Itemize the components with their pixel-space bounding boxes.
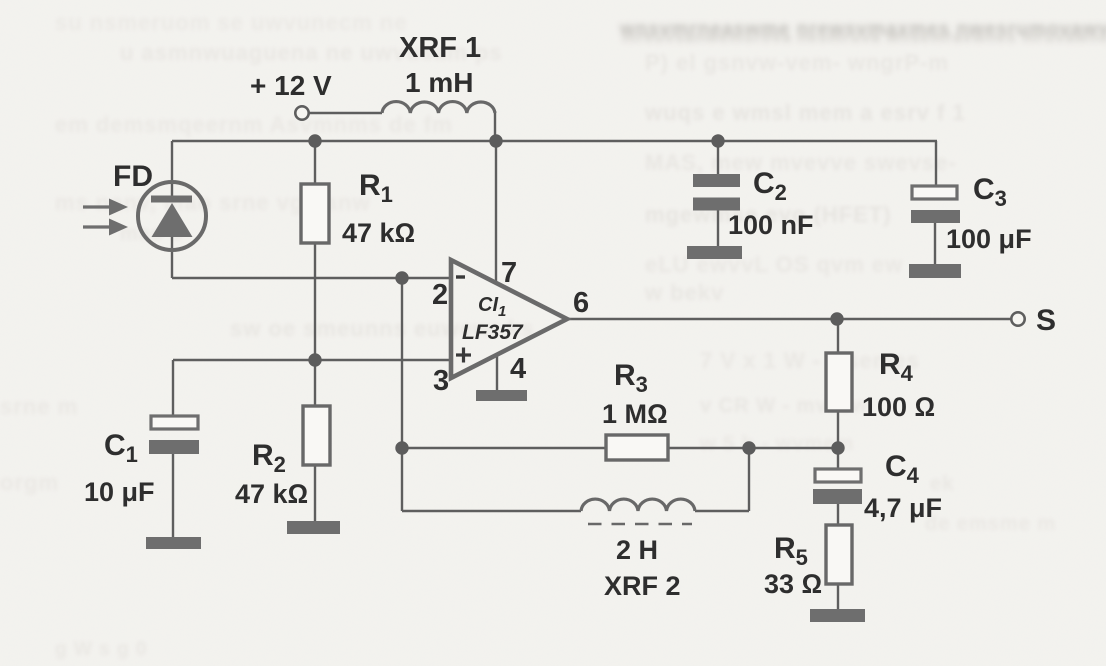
svg-text:XRF 1: XRF 1	[399, 32, 481, 64]
wire R5 to ground	[837, 584, 839, 610]
wire R1 bottom to R2 top	[314, 243, 316, 406]
terminal +12V	[295, 106, 308, 119]
wire XRF2 right	[695, 510, 749, 512]
wire C4 top	[837, 448, 839, 469]
svg-text:P) el gsnvw-vem- wngrP-m: P) el gsnvw-vem- wngrP-m	[645, 50, 949, 75]
wire output pin 6	[567, 318, 1011, 320]
capacitor C4	[813, 469, 862, 504]
svg-text:orgm: orgm	[0, 470, 59, 495]
svg-text:ek: ek	[930, 473, 954, 495]
svg-text:em demsmqeernm Asvmnms de fm: em demsmqeernm Asvmnms de fm	[55, 112, 453, 137]
svg-text:w 5 b - wvmem: w 5 b - wvmem	[699, 433, 854, 455]
wire R2 bottom to ground	[314, 465, 316, 522]
node rail-XRF1-pin7	[489, 134, 502, 147]
FD light arrow 2	[83, 219, 128, 236]
svg-text:LF357: LF357	[462, 321, 524, 344]
ground (op-amp pin 4)	[476, 390, 527, 401]
resistor R5	[826, 525, 852, 584]
wire XRF2 up to node	[748, 448, 750, 511]
wire feedback to XRF2	[402, 510, 581, 512]
resistor R4	[826, 353, 852, 411]
wire feedback to R3	[402, 447, 606, 449]
svg-text:mreuvsanwemsrova nesmruva wnse: mreuvsanwemsrova nesmruva wnsemravwnes m…	[622, 29, 1106, 46]
node pin2-feedback	[395, 271, 408, 284]
resistor R2	[303, 406, 330, 465]
wire pin 7	[495, 141, 497, 281]
svg-text:de emsme m: de emsme m	[925, 513, 1056, 535]
ground (C1)	[146, 537, 201, 549]
capacitor C3	[911, 186, 960, 223]
op-amp plus sign	[456, 348, 471, 363]
svg-text:g W s g 0: g W s g 0	[55, 639, 147, 660]
wire rail drop to C3	[935, 141, 937, 186]
svg-text:MAS, mew mvevve swevse-: MAS, mew mvevve swevse-	[645, 150, 957, 175]
inductor XRF2	[581, 499, 695, 511]
wire XRF1 to rail	[494, 111, 496, 141]
svg-text:100 nF: 100 nF	[728, 210, 814, 240]
capacitor C1	[149, 416, 199, 454]
svg-text:S: S	[1036, 304, 1056, 337]
op-amp U1 (CI1 LF357)	[451, 260, 567, 378]
wire top rail	[172, 140, 937, 142]
junction dots	[308, 134, 844, 454]
wire R1 top	[314, 141, 316, 184]
wire R3 to output node	[668, 447, 838, 449]
wire pin 4	[496, 354, 498, 391]
photodiode FD	[138, 182, 206, 250]
svg-text:33 Ω: 33 Ω	[764, 569, 822, 599]
wire FD top	[171, 141, 173, 196]
node XRF2-R3	[742, 441, 755, 454]
wire C1 to ground	[172, 454, 174, 538]
svg-text:2: 2	[432, 279, 448, 311]
svg-text:1 MΩ: 1 MΩ	[602, 399, 668, 429]
wire R4 bottom	[837, 411, 839, 448]
op-amp minus sign	[456, 275, 465, 278]
terminal S	[1011, 312, 1024, 325]
node R4-C4	[831, 441, 844, 454]
ground (C2)	[687, 246, 742, 259]
svg-text:6: 6	[573, 287, 589, 319]
svg-text:w bekv: w bekv	[644, 280, 724, 305]
node output-R4	[830, 312, 843, 325]
ground (R2)	[287, 521, 340, 534]
wire FD bottom to pin2 row	[171, 237, 173, 278]
svg-text:srne m: srne m	[0, 394, 78, 419]
svg-text:100 Ω: 100 Ω	[862, 392, 935, 422]
capacitor C2	[693, 174, 740, 211]
svg-text:+ 12 V: + 12 V	[250, 70, 332, 101]
wire C3 to ground	[934, 223, 936, 265]
wire feedback vertical	[401, 278, 403, 511]
node rail-C2	[711, 134, 724, 147]
svg-text:eLU ewvvL OS qvm ew: eLU ewvvL OS qvm ew	[645, 252, 903, 277]
resistor R1	[301, 184, 329, 243]
wire R4 top	[837, 319, 839, 353]
svg-text:47 kΩ: 47 kΩ	[342, 218, 415, 248]
inductor XRF1	[382, 102, 495, 113]
svg-text:wuqs e wmsl mem a esrv f 1: wuqs e wmsl mem a esrv f 1	[644, 100, 966, 125]
wire +12V feed	[309, 112, 382, 114]
FD light arrow 1	[83, 199, 128, 216]
svg-text:4,7 μF: 4,7 μF	[864, 493, 942, 523]
svg-text:1 mH: 1 mH	[405, 67, 473, 98]
wire pin 3 row	[173, 359, 452, 361]
ground (C3)	[909, 264, 961, 278]
svg-text:47 kΩ: 47 kΩ	[235, 479, 308, 509]
wire C2 to ground	[717, 210, 719, 247]
XRF2 core dashed line	[588, 523, 692, 526]
svg-text:3: 3	[433, 365, 449, 397]
node rail-R1	[308, 134, 321, 147]
svg-text:7: 7	[501, 257, 517, 289]
node pin3-R2	[308, 353, 321, 366]
wire C4 to R5	[837, 504, 839, 525]
svg-text:su nsmeruom se uwvunecm ne: su nsmeruom se uwvunecm ne	[55, 10, 407, 35]
ground (R5)	[810, 609, 865, 622]
wire pin 2 row	[172, 277, 452, 279]
svg-text:2 H: 2 H	[616, 535, 658, 565]
wire C2 drop	[717, 141, 719, 174]
svg-text:FD: FD	[113, 160, 153, 193]
resistor R3	[606, 435, 668, 460]
wire C1 drop	[172, 360, 174, 416]
node feedback-R3	[395, 441, 408, 454]
svg-text:XRF 2: XRF 2	[604, 571, 681, 601]
svg-text:4: 4	[510, 353, 526, 385]
svg-text:100 μF: 100 μF	[946, 224, 1032, 254]
svg-text:10 μF: 10 μF	[84, 477, 155, 507]
